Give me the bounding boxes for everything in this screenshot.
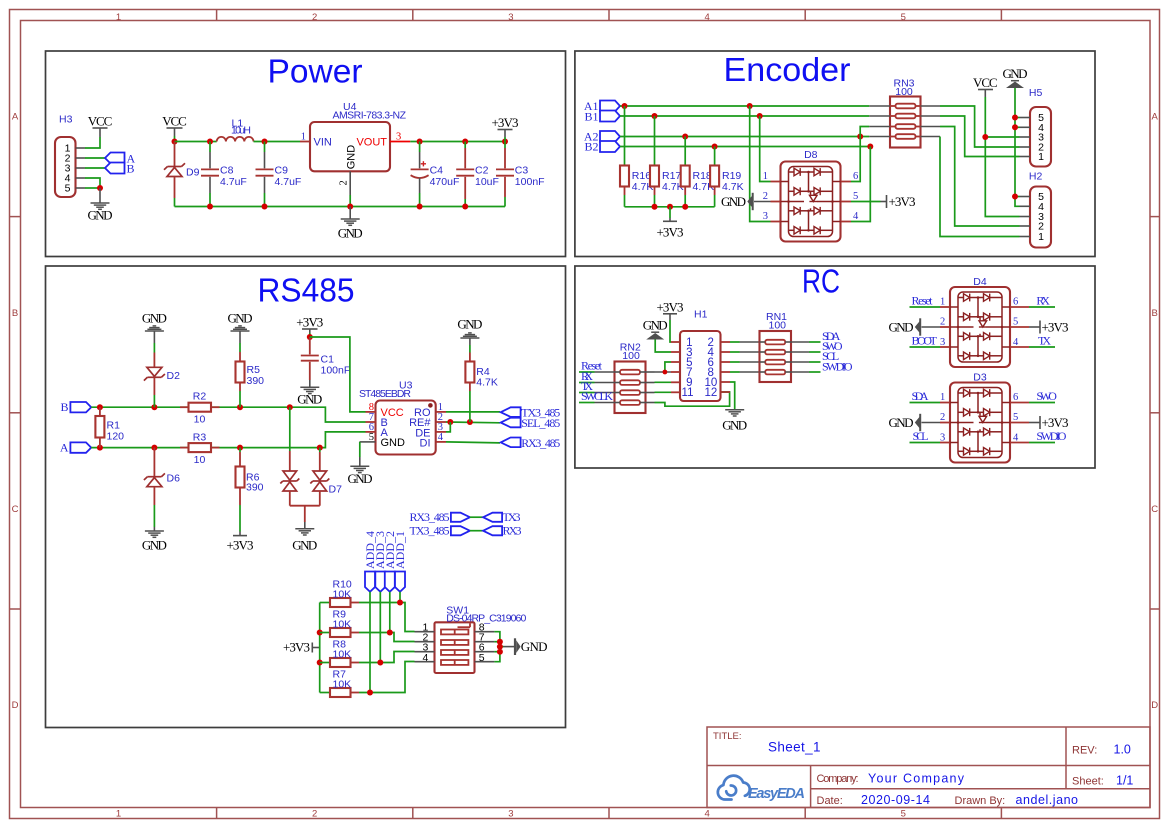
D4 pin4 stub	[1010, 346, 1029, 348]
resistor R9	[320, 609, 359, 637]
wire D3 pin4 to SWDIO	[1029, 442, 1055, 444]
svg-text:TX3_485: TX3_485	[410, 524, 450, 538]
wire TX to RN2	[579, 392, 595, 394]
svg-text:1: 1	[301, 132, 306, 143]
svg-text:D3: D3	[973, 372, 987, 384]
EasyEDA logo cloud	[718, 776, 750, 800]
svg-text:GND: GND	[381, 437, 406, 449]
wire A row	[91, 432, 365, 448]
resistor R8	[320, 639, 359, 667]
svg-text:DI: DI	[420, 438, 431, 450]
svg-text:GND: GND	[88, 208, 113, 223]
wire R10 to SW1 pin1	[359, 603, 415, 632]
wire VCC top rail left	[175, 141, 217, 143]
svg-text:Company:: Company:	[817, 773, 859, 785]
svg-text:R3: R3	[193, 432, 207, 444]
junction H1 pin5 pin7	[663, 370, 668, 375]
net flag B rs485	[70, 402, 91, 412]
U3 pin2 stub	[436, 421, 446, 423]
svg-text:SWDIO: SWDIO	[822, 359, 853, 373]
capacitor C1	[301, 337, 350, 387]
svg-text:2: 2	[763, 191, 768, 202]
svg-text:1/1: 1/1	[1116, 774, 1133, 788]
ground flag GND encoder top	[1003, 66, 1028, 88]
svg-text:1: 1	[1038, 231, 1044, 243]
wire +3V3 rail vertical	[319, 603, 321, 693]
frame column numbers top	[116, 12, 906, 23]
connector H3	[55, 114, 85, 198]
net flag A	[105, 153, 125, 164]
svg-text:GND: GND	[889, 415, 914, 430]
svg-text:SDA: SDA	[912, 389, 929, 403]
svg-text:100nF: 100nF	[515, 176, 545, 188]
wire B2 row	[620, 146, 870, 148]
svg-text:H3: H3	[59, 114, 73, 126]
svg-text:GND: GND	[643, 318, 668, 333]
svg-text:EasyEDA: EasyEDA	[748, 786, 805, 802]
D4 pin2 stub	[940, 326, 950, 328]
svg-text:10: 10	[194, 454, 206, 466]
wire R7 to SW1 pin4	[359, 662, 415, 693]
svg-text:BOOT: BOOT	[912, 334, 938, 348]
svg-text:+3V3: +3V3	[889, 194, 916, 209]
power flag +3V3 output	[492, 115, 519, 142]
net flag B2	[600, 141, 620, 152]
svg-text:B1: B1	[584, 110, 598, 124]
Power section box	[46, 51, 566, 257]
wire A1 row	[620, 105, 869, 107]
wire Reset to D4 pin1	[910, 306, 941, 308]
junction B R5	[237, 404, 243, 410]
svg-text:GND: GND	[228, 311, 253, 326]
wire D7 common	[290, 506, 320, 522]
title block border	[707, 727, 1150, 808]
svg-text:+3V3: +3V3	[1042, 415, 1069, 430]
polarized capacitor C4	[411, 142, 460, 207]
diode array D8	[781, 149, 841, 242]
power flag +3V3 above C1	[296, 315, 323, 338]
power flag +3V3 at H1	[657, 300, 684, 321]
D8 pin6 stub	[841, 181, 851, 183]
D3 pin6 stub	[1010, 402, 1029, 404]
wire U4 pin2 to gnd rail	[349, 195, 351, 207]
svg-text:+3V3: +3V3	[492, 115, 519, 130]
junction gnd rail C2	[462, 204, 468, 210]
svg-text:D4: D4	[973, 276, 987, 288]
svg-text:Reset: Reset	[912, 294, 934, 308]
svg-text:B: B	[60, 400, 68, 414]
svg-text:100: 100	[622, 350, 640, 362]
ground GND below D6	[142, 527, 167, 552]
svg-text:VCC: VCC	[973, 75, 998, 90]
net flag B1	[600, 111, 620, 122]
net flag ADD_2	[385, 572, 395, 592]
svg-text:2: 2	[940, 412, 945, 423]
svg-text:10K: 10K	[333, 589, 352, 601]
svg-text:6: 6	[853, 171, 858, 182]
net tie TX3 flag	[483, 513, 502, 522]
wire RN3 pin6 to H2 pin2	[940, 127, 1020, 227]
svg-text:+3V3: +3V3	[296, 315, 323, 330]
svg-text:andel.jano: andel.jano	[1016, 793, 1079, 807]
D8 pin1 stub	[771, 181, 781, 183]
resistor R4	[465, 362, 498, 423]
svg-text:4: 4	[1013, 432, 1019, 443]
junction C1 top	[307, 334, 313, 340]
net flag ADD_1	[395, 572, 405, 592]
wire H3 pin4 to pin5 junction	[85, 178, 100, 188]
frame row letters right	[1151, 112, 1158, 712]
svg-text:RS485: RS485	[258, 272, 355, 309]
svg-text:GND: GND	[721, 194, 746, 209]
wire U3 DE joins RE#	[446, 422, 450, 432]
svg-text:Encoder: Encoder	[724, 51, 851, 88]
junction rail R18	[682, 204, 688, 210]
resistor R18	[681, 137, 714, 207]
net flag ADD_3	[375, 572, 385, 592]
svg-text:2: 2	[339, 180, 350, 185]
wire D3 pin6 to SWO	[1029, 402, 1055, 404]
junction R9 ADD_2	[387, 630, 393, 636]
svg-text:Your Company: Your Company	[868, 772, 965, 786]
U3 pin5 stub	[360, 441, 376, 443]
connector H2	[1020, 171, 1052, 248]
wire D4 pin6 to RX	[1029, 306, 1055, 308]
junction R4 RE#	[467, 419, 473, 425]
wire VCC to H5 pin3 and H2 pin3	[985, 97, 1019, 217]
svg-text:B: B	[127, 162, 135, 176]
D4 pin6 stub	[1010, 306, 1029, 308]
svg-text:1: 1	[940, 392, 945, 403]
svg-text:B: B	[1152, 308, 1158, 319]
U3 pin7 stub	[366, 421, 376, 423]
svg-text:5: 5	[1013, 412, 1018, 423]
zener diode D9	[164, 142, 200, 207]
svg-text:+3V3: +3V3	[1042, 320, 1069, 335]
junction R10 ADD_1	[397, 600, 403, 606]
net tie TX3_485 flag	[451, 526, 470, 535]
ground flag GND above H1	[643, 318, 668, 340]
zener diode D6	[144, 448, 180, 527]
wire GND branch H5 pin4	[1015, 126, 1020, 128]
junction VCC rail	[172, 139, 178, 145]
svg-text:TX: TX	[1038, 334, 1051, 348]
junction A2 RN3 branch	[857, 134, 863, 140]
resistor network RN2	[595, 342, 655, 414]
wire U3 pin5 to GND	[359, 442, 361, 457]
capacitor C8	[201, 142, 247, 207]
junction B D2	[151, 404, 157, 410]
power flag VCC main rail	[162, 114, 187, 142]
svg-text:D6: D6	[167, 473, 181, 485]
D8 pin3 stub	[771, 221, 781, 223]
junction C8 top	[207, 139, 213, 145]
resistor R2	[180, 391, 220, 426]
wire H3 pin2 to net flag A	[85, 157, 105, 159]
net flag RX3_485	[501, 438, 521, 448]
wire ADD_3 down	[379, 592, 381, 663]
svg-text:4: 4	[1013, 337, 1019, 348]
connector H1	[671, 309, 730, 402]
svg-text:5: 5	[853, 191, 858, 202]
svg-text:VOUT: VOUT	[356, 137, 387, 149]
resistor network RN3	[869, 78, 940, 148]
wire U3 RO to TX3_485	[446, 411, 500, 413]
svg-text:RC: RC	[802, 263, 840, 300]
svg-text:4.7uF: 4.7uF	[220, 176, 247, 188]
ground GND at H3	[88, 188, 113, 223]
svg-text:5: 5	[901, 808, 906, 819]
net tie RX3 flag	[483, 526, 502, 535]
svg-text:120: 120	[107, 431, 125, 443]
wire GND to H1 pin3	[655, 340, 671, 353]
svg-text:390: 390	[246, 481, 264, 493]
svg-text:D2: D2	[167, 370, 181, 382]
wire R8 to SW1 pin3	[359, 652, 415, 663]
junction gnd rail C8	[207, 204, 213, 210]
wire H3 pin3 to net flag B	[85, 167, 105, 169]
svg-text:1: 1	[1038, 151, 1044, 163]
wire SDA to D3 pin1	[910, 402, 941, 404]
svg-text:VCC: VCC	[88, 114, 113, 129]
capacitor C2	[456, 142, 499, 207]
wire ADD_2 down	[389, 592, 391, 633]
svg-text:10K: 10K	[333, 679, 352, 691]
svg-text:470uF: 470uF	[430, 176, 460, 188]
wire GND branch H5 pin5	[1015, 117, 1020, 119]
frame column numbers bottom	[116, 808, 906, 819]
svg-text:C9: C9	[275, 165, 289, 177]
ground flag GND at D8 pin2	[721, 193, 771, 210]
wire RX to RN2	[579, 382, 595, 384]
TVS diode D7 second	[310, 448, 342, 506]
D3 pin5 stub	[1010, 422, 1029, 424]
resistor R19	[710, 147, 744, 207]
svg-text:5: 5	[65, 183, 71, 195]
RS485 section box	[46, 266, 566, 728]
wire SCL to D3 pin3	[910, 442, 941, 444]
junction rail R9	[317, 630, 323, 636]
wire RN2 RX to H1 pin9	[655, 381, 672, 383]
power flag +3V3 at D3 pin5	[1029, 415, 1069, 430]
svg-text:12: 12	[705, 387, 718, 399]
wire RN1 to SWO	[809, 351, 821, 353]
svg-text:100: 100	[769, 320, 787, 332]
junction A1 D8 branch	[747, 103, 753, 109]
wire resistor bottom rail	[625, 206, 715, 208]
diode array D3	[950, 372, 1010, 463]
junction DE RE#	[447, 419, 453, 425]
wire GND to H5 pins and H2 pins	[1015, 88, 1020, 206]
wire U3 RE# to SEL_485	[446, 421, 500, 424]
wire H3 pin1 to VCC	[85, 137, 100, 148]
svg-text:1: 1	[940, 297, 945, 308]
svg-text:11: 11	[682, 387, 694, 399]
svg-text:GND: GND	[142, 537, 167, 552]
junction R8 ADD_3	[377, 660, 383, 666]
frame row letters left	[12, 112, 19, 712]
svg-text:A: A	[60, 441, 69, 455]
power flag +3V3 at D4 pin5	[1029, 320, 1069, 335]
svg-text:VCC: VCC	[162, 114, 187, 129]
capacitor C3	[496, 142, 545, 207]
wire SW1 right pins common	[494, 632, 503, 662]
power flag VCC at H3	[88, 114, 113, 138]
D3 pin1 stub	[940, 402, 950, 404]
net flag A1	[600, 101, 620, 112]
svg-text:6: 6	[1013, 297, 1018, 308]
junction VCC H5 pin3	[982, 134, 988, 140]
resistor R6	[236, 448, 264, 532]
junction GND H5 pin5	[1012, 115, 1018, 121]
U3 pin1 stub	[436, 411, 446, 413]
svg-text:RX3: RX3	[503, 524, 522, 538]
junction A R1	[97, 445, 103, 451]
svg-text:GND: GND	[346, 145, 358, 170]
ground GND below D7	[292, 522, 317, 552]
net flag B	[105, 163, 125, 174]
svg-text:10K: 10K	[333, 619, 352, 631]
net tie RX3_485 flag	[451, 513, 470, 522]
svg-text:TITLE:: TITLE:	[713, 731, 742, 742]
wire B1 branch down to D8 pin1	[760, 116, 771, 182]
wire B row	[91, 407, 365, 422]
D8 pin4 stub	[841, 221, 851, 223]
svg-text:3: 3	[508, 12, 513, 23]
svg-text:ST485EBDR: ST485EBDR	[359, 388, 411, 400]
junction B2 D8 branch	[867, 144, 873, 150]
svg-text:10: 10	[194, 414, 206, 426]
net tie wire row1	[470, 516, 483, 518]
svg-text:2: 2	[312, 12, 317, 23]
regulator U4 pin3 stub	[390, 141, 410, 143]
svg-text:6: 6	[1013, 392, 1018, 403]
wire RN3 pin7 to H5 pin1	[940, 116, 1020, 157]
svg-text:1: 1	[763, 171, 768, 182]
junction H3 gnd	[97, 185, 103, 191]
junction C9 top	[262, 139, 268, 145]
svg-text:3: 3	[396, 132, 401, 143]
junction gnd rail C4	[417, 204, 423, 210]
svg-text:SWCLK: SWCLK	[581, 389, 613, 403]
svg-text:RX3_485: RX3_485	[521, 436, 560, 450]
svg-text:H5: H5	[1029, 87, 1043, 99]
U3 pin4 stub	[436, 441, 446, 443]
svg-text:10uF: 10uF	[475, 176, 499, 188]
svg-text:D9: D9	[186, 167, 200, 179]
svg-text:3: 3	[763, 211, 768, 222]
svg-text:GND: GND	[1003, 66, 1028, 81]
svg-text:C2: C2	[475, 165, 489, 177]
svg-text:Drawn By:: Drawn By:	[955, 795, 1006, 807]
junction A2 R18	[682, 134, 688, 140]
svg-text:4.7K: 4.7K	[476, 376, 498, 388]
wire C1 to U3 VCC pin8	[310, 337, 366, 412]
ground GND above R4	[457, 317, 482, 362]
svg-text:GND: GND	[348, 471, 373, 486]
svg-text:GND: GND	[889, 320, 914, 335]
junction gnd rail U4	[347, 204, 353, 210]
junction SW1 pin7	[497, 639, 503, 645]
frame row tick marks left	[10, 217, 21, 609]
junction B R1	[97, 404, 103, 410]
svg-text:D8: D8	[804, 149, 818, 161]
zener diode D2	[144, 353, 180, 408]
svg-text:4.7uF: 4.7uF	[275, 176, 302, 188]
wire RN2 pin Reset to H1 pin7 and pin5	[655, 362, 672, 372]
regulator U4 AMSRI-783.3-NZ	[310, 101, 407, 172]
frame column tick marks bottom	[217, 808, 1002, 819]
D3 pin2 stub	[940, 422, 950, 424]
wire B1 row	[620, 115, 869, 117]
diode array D4	[950, 276, 1010, 367]
svg-text:B: B	[12, 308, 18, 319]
junction B1 R17	[652, 113, 658, 119]
U3 pin6 stub	[366, 431, 376, 433]
wire A2 row	[620, 136, 869, 138]
junction B1 D8 branch	[757, 113, 763, 119]
wire ADD_4 down	[369, 592, 371, 693]
wire RN2 TX to H1 pin11	[655, 391, 672, 393]
TVS diode D7 first	[280, 407, 299, 506]
svg-text:C4: C4	[430, 165, 444, 177]
resistor network RN1	[760, 311, 810, 382]
svg-text:D: D	[12, 700, 19, 711]
junction +3V3	[502, 139, 508, 145]
svg-text:H1: H1	[694, 309, 708, 321]
capacitor C9	[256, 142, 302, 207]
wire VCC branch H5 pin3	[985, 136, 1019, 138]
svg-text:SCL: SCL	[913, 429, 929, 443]
svg-text:4: 4	[704, 808, 709, 819]
wire +3V3 to H1 pin1	[670, 320, 671, 342]
resistor R1	[95, 407, 124, 447]
ground GND below H1	[722, 410, 747, 433]
svg-text:C3: C3	[515, 165, 529, 177]
svg-text:4.7K: 4.7K	[722, 181, 744, 193]
svg-text:ADD_1: ADD_1	[393, 531, 407, 569]
wire D4 pin4 to TX	[1029, 346, 1055, 348]
power flag +3V3 at D8 pin5	[851, 194, 916, 209]
power flag +3V3 below R6	[227, 532, 254, 553]
wire BOOT to D4 pin3	[910, 346, 941, 348]
U3 pin8 stub	[366, 411, 376, 413]
svg-text:GND: GND	[142, 311, 167, 326]
D4 pin3 stub	[940, 346, 950, 348]
svg-text:RX: RX	[1036, 294, 1050, 308]
net flag A rs485	[70, 442, 91, 452]
svg-text:A: A	[1152, 112, 1159, 123]
svg-text:SWDIO: SWDIO	[1036, 429, 1066, 443]
junction SW1 pin6	[497, 649, 503, 655]
svg-text:100: 100	[895, 86, 913, 98]
U3 pin3 stub	[436, 431, 446, 433]
svg-text:D: D	[1151, 700, 1158, 711]
wire R9 to SW1 pin2	[359, 633, 415, 642]
junction SW1 gnd	[497, 644, 503, 650]
svg-text:2: 2	[312, 808, 317, 819]
D4 pin1 stub	[940, 306, 950, 308]
wire A1 branch down to D8 pin3	[750, 106, 771, 222]
net tie wire row2	[470, 530, 483, 532]
wire RN3 pin8 to H5 pin2	[940, 106, 1020, 147]
wire RN1 to SWDIO	[809, 371, 821, 373]
svg-text:10K: 10K	[333, 649, 352, 661]
resistor R5	[236, 362, 265, 408]
svg-text:+3V3: +3V3	[227, 537, 254, 552]
D3 pin4 stub	[1010, 442, 1029, 444]
svg-text:REV:: REV:	[1072, 745, 1097, 757]
